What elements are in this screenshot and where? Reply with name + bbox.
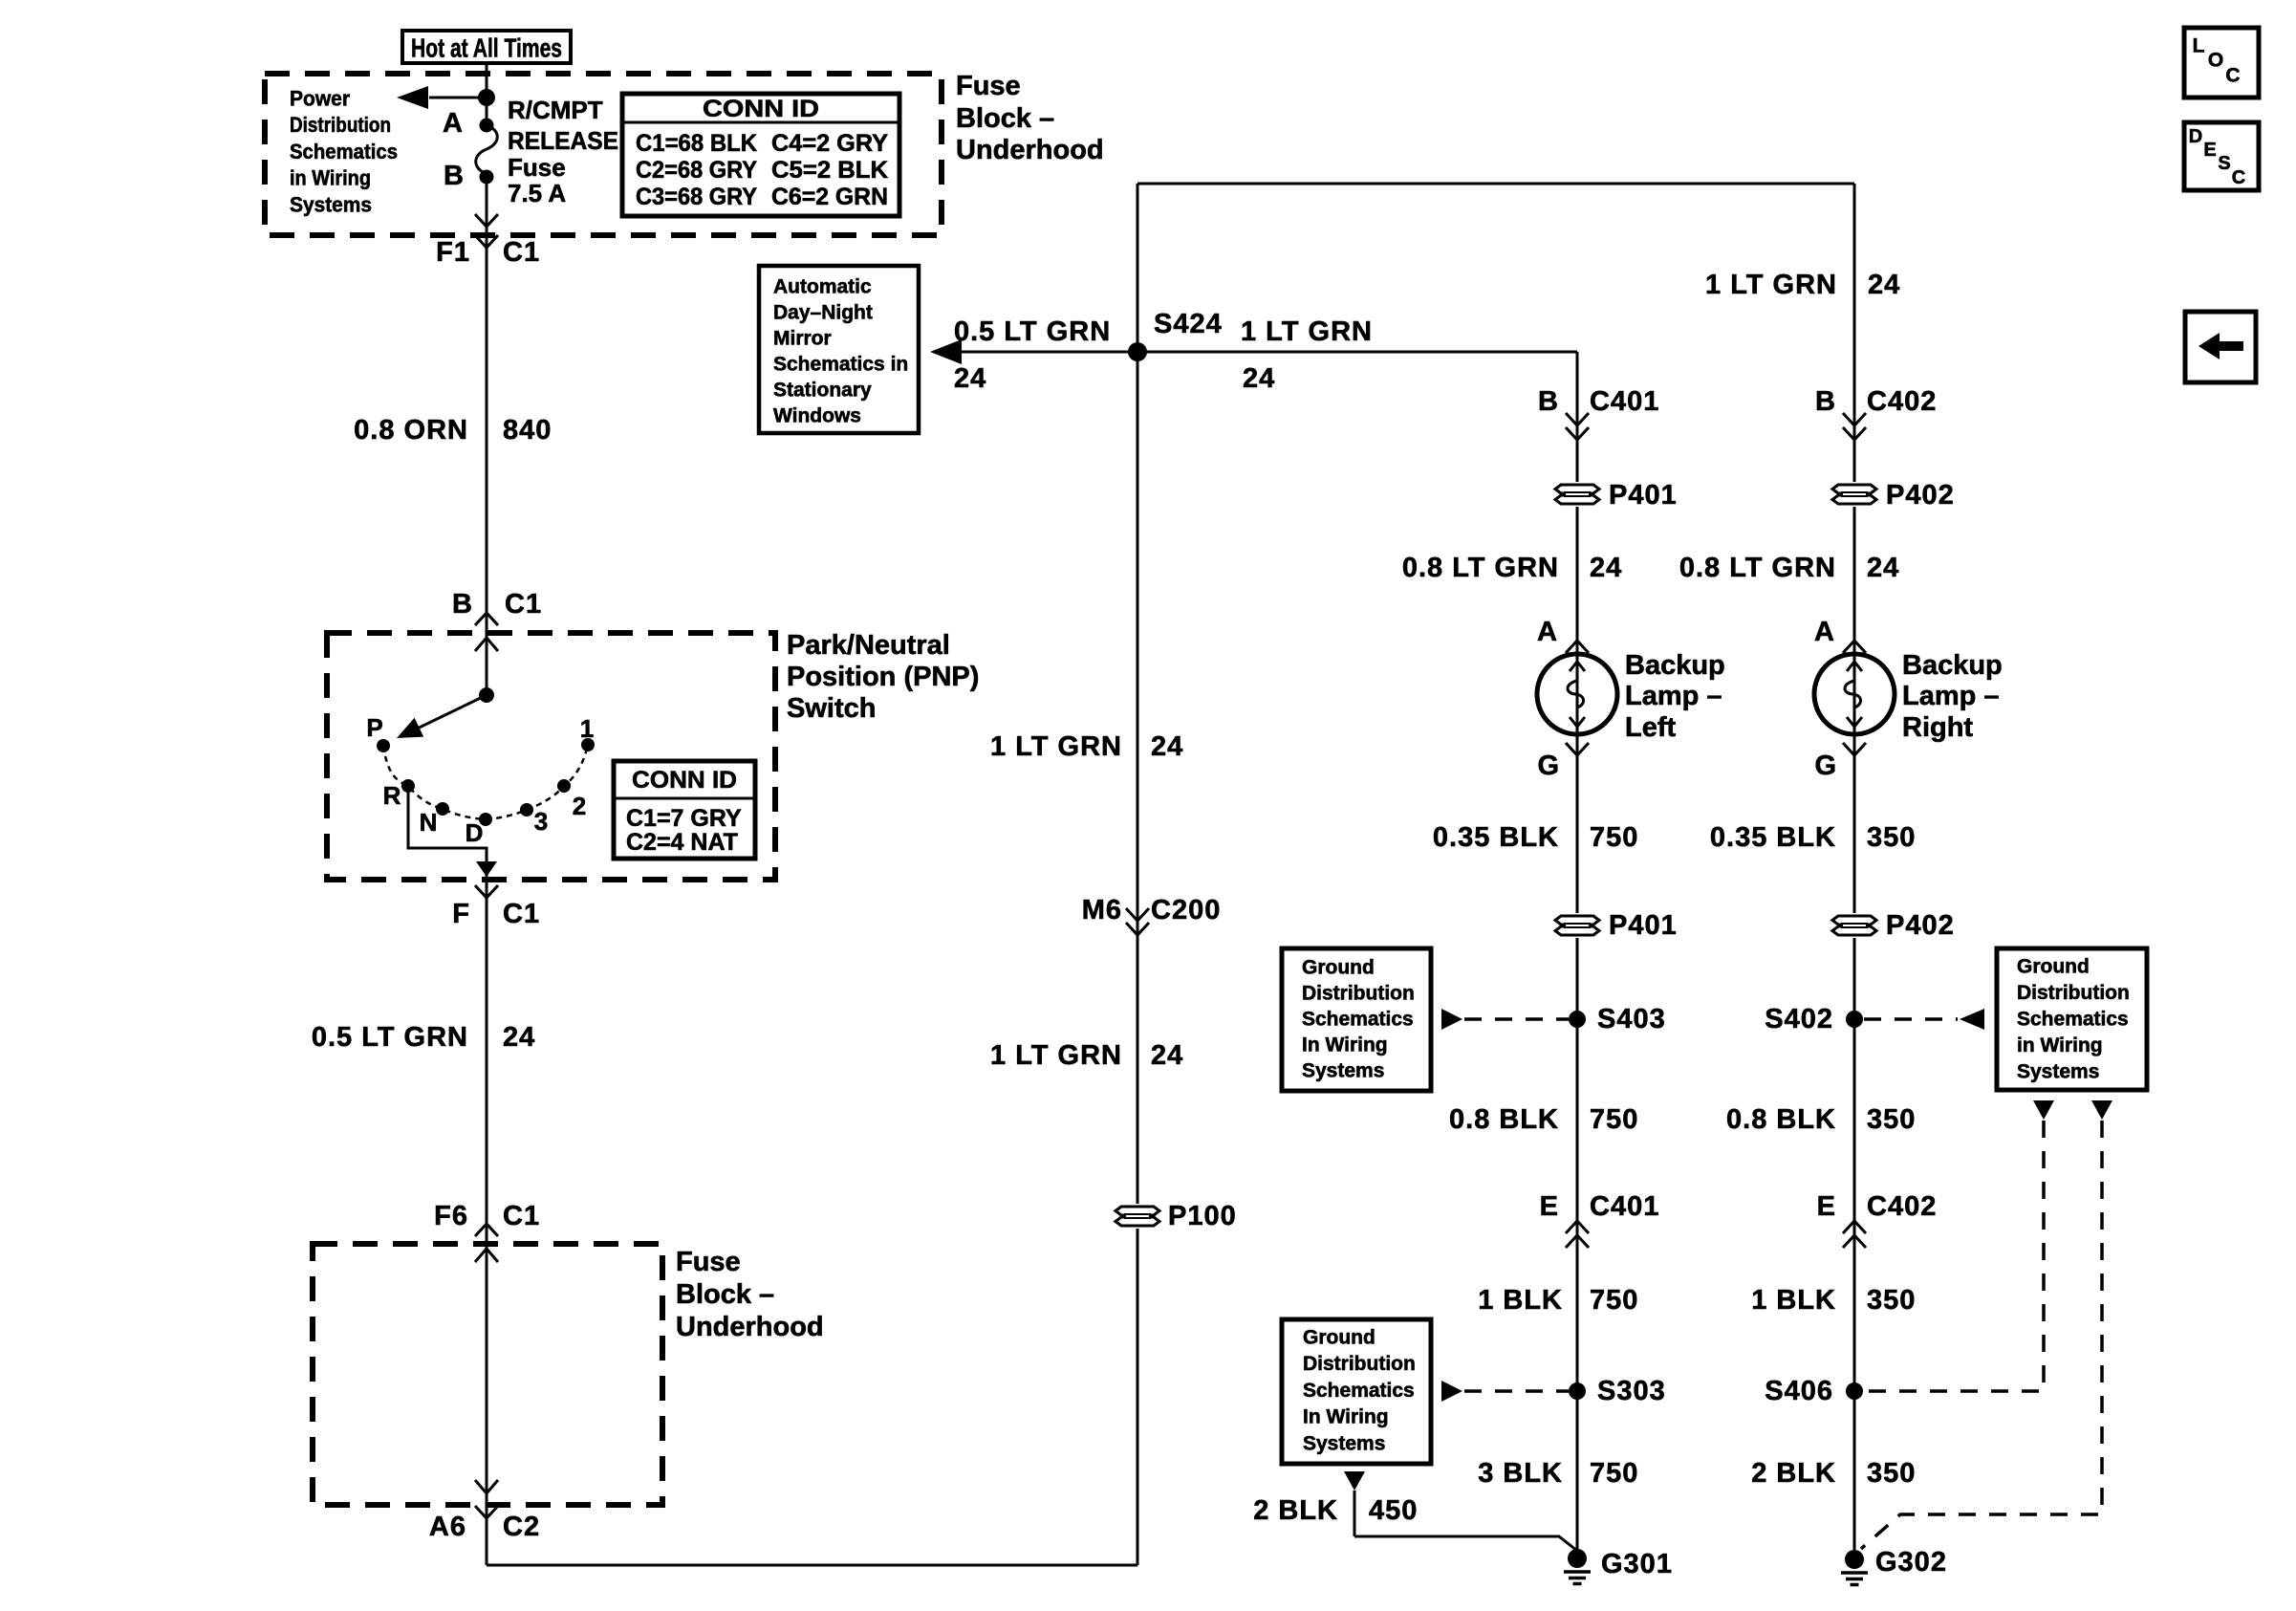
svg-text:24: 24: [954, 363, 986, 394]
svg-text:S: S: [2218, 153, 2230, 174]
svg-text:1 LT GRN: 1 LT GRN: [1705, 270, 1837, 300]
svg-text:Distribution: Distribution: [1303, 1353, 1416, 1375]
svg-text:350: 350: [1867, 822, 1916, 853]
svg-text:B: B: [452, 589, 473, 620]
svg-text:S303: S303: [1597, 1376, 1666, 1406]
svg-text:D: D: [466, 818, 484, 847]
svg-text:1 LT GRN: 1 LT GRN: [1241, 316, 1373, 347]
svg-text:M6: M6: [1082, 895, 1122, 925]
svg-text:P402: P402: [1886, 910, 1955, 941]
svg-text:24: 24: [1868, 270, 1900, 300]
svg-text:Fuse: Fuse: [956, 71, 1021, 101]
svg-text:Ground: Ground: [1303, 1327, 1375, 1349]
svg-text:0.35 BLK: 0.35 BLK: [1433, 822, 1559, 853]
svg-text:Fuse: Fuse: [508, 153, 566, 182]
svg-text:0.8 BLK: 0.8 BLK: [1726, 1104, 1836, 1135]
svg-text:In Wiring: In Wiring: [1302, 1034, 1388, 1056]
svg-text:Fuse: Fuse: [676, 1247, 741, 1277]
svg-text:C6=2 GRN: C6=2 GRN: [771, 184, 888, 210]
svg-text:B: B: [444, 161, 465, 191]
svg-text:350: 350: [1867, 1285, 1916, 1316]
svg-text:C401: C401: [1590, 1191, 1659, 1222]
svg-text:Block –: Block –: [956, 103, 1054, 134]
svg-text:C: C: [2232, 167, 2245, 188]
svg-text:L: L: [2193, 35, 2205, 57]
svg-text:Ground: Ground: [1302, 957, 1375, 979]
svg-text:G: G: [1814, 751, 1837, 781]
svg-text:B: B: [1815, 386, 1836, 417]
svg-text:F: F: [452, 899, 470, 929]
svg-text:Distribution: Distribution: [1302, 983, 1415, 1005]
svg-text:G: G: [1537, 751, 1560, 781]
svg-text:24: 24: [1151, 731, 1183, 762]
svg-text:2: 2: [573, 792, 586, 820]
svg-text:C200: C200: [1151, 895, 1221, 925]
svg-text:350: 350: [1867, 1458, 1916, 1489]
svg-text:C1: C1: [503, 899, 540, 929]
svg-text:CONN ID: CONN ID: [632, 767, 737, 794]
svg-text:2 BLK: 2 BLK: [1253, 1495, 1338, 1526]
svg-text:R/CMPT: R/CMPT: [508, 96, 603, 124]
svg-text:750: 750: [1590, 822, 1638, 853]
svg-text:RELEASE: RELEASE: [508, 126, 618, 155]
svg-text:7.5 A: 7.5 A: [508, 179, 566, 207]
svg-text:Distribution: Distribution: [290, 113, 391, 137]
svg-text:3 BLK: 3 BLK: [1478, 1458, 1563, 1489]
svg-text:P: P: [366, 713, 382, 742]
svg-text:O: O: [2208, 50, 2223, 72]
svg-text:C2=4 NAT: C2=4 NAT: [626, 829, 738, 856]
svg-text:In Wiring: In Wiring: [1303, 1406, 1389, 1428]
svg-text:840: 840: [503, 415, 552, 446]
svg-text:C4=2 GRY: C4=2 GRY: [771, 130, 888, 157]
svg-text:A: A: [1537, 617, 1558, 647]
svg-text:in Wiring: in Wiring: [2017, 1034, 2103, 1056]
svg-text:0.8 BLK: 0.8 BLK: [1449, 1104, 1559, 1135]
svg-text:1 BLK: 1 BLK: [1478, 1285, 1563, 1316]
svg-text:F1: F1: [436, 237, 470, 268]
svg-text:C: C: [2225, 65, 2240, 87]
svg-text:G301: G301: [1601, 1549, 1673, 1579]
svg-text:C1: C1: [503, 1201, 540, 1231]
svg-text:A: A: [1814, 617, 1835, 647]
svg-text:1 LT GRN: 1 LT GRN: [990, 731, 1122, 762]
svg-text:E: E: [2203, 140, 2216, 161]
svg-text:C1=7 GRY: C1=7 GRY: [626, 805, 742, 832]
svg-text:R: R: [383, 781, 401, 810]
svg-text:Right: Right: [1902, 712, 1973, 743]
svg-text:Block –: Block –: [676, 1279, 774, 1310]
svg-text:N: N: [420, 808, 438, 837]
svg-text:C402: C402: [1867, 1191, 1937, 1222]
svg-text:C401: C401: [1590, 386, 1659, 417]
svg-text:3: 3: [534, 807, 548, 836]
svg-text:P401: P401: [1609, 910, 1678, 941]
svg-text:2 BLK: 2 BLK: [1751, 1458, 1836, 1489]
svg-text:Park/Neutral: Park/Neutral: [787, 630, 950, 661]
svg-text:24: 24: [1590, 553, 1622, 583]
svg-text:C3=68 GRY: C3=68 GRY: [636, 184, 757, 210]
svg-text:in Wiring: in Wiring: [290, 166, 371, 190]
svg-text:Ground: Ground: [2017, 956, 2090, 978]
svg-text:Mirror: Mirror: [773, 328, 832, 350]
svg-text:Underhood: Underhood: [956, 135, 1104, 165]
svg-text:Backup: Backup: [1902, 650, 2003, 681]
svg-text:0.35 BLK: 0.35 BLK: [1710, 822, 1836, 853]
svg-text:Distribution: Distribution: [2017, 982, 2130, 1004]
svg-text:Systems: Systems: [1302, 1060, 1384, 1082]
svg-text:E: E: [1817, 1191, 1836, 1222]
svg-text:Schematics: Schematics: [1303, 1380, 1415, 1402]
svg-text:D: D: [2189, 126, 2202, 147]
svg-text:24: 24: [1867, 553, 1899, 583]
svg-text:0.8 LT GRN: 0.8 LT GRN: [1679, 553, 1836, 583]
svg-text:Lamp –: Lamp –: [1902, 681, 2000, 711]
svg-text:Schematics: Schematics: [2017, 1009, 2129, 1031]
svg-text:F6: F6: [434, 1201, 468, 1231]
svg-text:Systems: Systems: [1303, 1432, 1385, 1454]
svg-text:C2=68 GRY: C2=68 GRY: [636, 157, 757, 184]
svg-text:Stationary: Stationary: [773, 380, 872, 402]
svg-text:B: B: [1538, 386, 1559, 417]
svg-text:0.5 LT GRN: 0.5 LT GRN: [312, 1022, 468, 1053]
svg-text:Hot at All Times: Hot at All Times: [411, 33, 562, 63]
svg-text:0.8 LT GRN: 0.8 LT GRN: [1402, 553, 1559, 583]
svg-text:P100: P100: [1168, 1201, 1237, 1231]
svg-text:S402: S402: [1765, 1004, 1833, 1034]
svg-text:Schematics: Schematics: [1302, 1009, 1414, 1031]
svg-text:CONN ID: CONN ID: [703, 96, 819, 122]
svg-text:A: A: [443, 108, 464, 139]
svg-text:E: E: [1540, 1191, 1559, 1222]
svg-text:P401: P401: [1609, 480, 1678, 511]
svg-text:750: 750: [1590, 1458, 1638, 1489]
svg-text:0.5 LT GRN: 0.5 LT GRN: [954, 316, 1111, 347]
svg-text:C1: C1: [503, 237, 540, 268]
svg-text:350: 350: [1867, 1104, 1916, 1135]
svg-text:Windows: Windows: [773, 405, 861, 427]
svg-text:P402: P402: [1886, 480, 1955, 511]
svg-text:Position (PNP): Position (PNP): [787, 662, 979, 692]
svg-text:C5=2 BLK: C5=2 BLK: [771, 157, 888, 184]
svg-text:Schematics in: Schematics in: [773, 354, 908, 376]
svg-text:1 LT GRN: 1 LT GRN: [990, 1040, 1122, 1071]
svg-text:1 BLK: 1 BLK: [1751, 1285, 1836, 1316]
svg-text:Underhood: Underhood: [676, 1312, 824, 1342]
svg-text:Automatic: Automatic: [773, 276, 872, 298]
svg-text:A6: A6: [429, 1512, 466, 1542]
svg-text:Switch: Switch: [787, 693, 876, 724]
svg-text:Day–Night: Day–Night: [773, 302, 873, 324]
svg-text:Schematics: Schematics: [290, 140, 398, 163]
svg-text:24: 24: [1243, 363, 1275, 394]
svg-text:Backup: Backup: [1625, 650, 1725, 681]
svg-text:0.8 ORN: 0.8 ORN: [354, 415, 468, 446]
svg-text:750: 750: [1590, 1285, 1638, 1316]
svg-text:S424: S424: [1154, 309, 1223, 339]
svg-text:Left: Left: [1625, 712, 1677, 743]
svg-text:S406: S406: [1765, 1376, 1833, 1406]
svg-text:Power: Power: [290, 87, 350, 111]
svg-text:C402: C402: [1867, 386, 1937, 417]
svg-text:750: 750: [1590, 1104, 1638, 1135]
svg-text:C1=68 BLK: C1=68 BLK: [636, 130, 757, 157]
svg-text:C2: C2: [503, 1512, 540, 1542]
svg-text:450: 450: [1369, 1495, 1418, 1526]
svg-text:Systems: Systems: [290, 192, 372, 216]
svg-text:24: 24: [1151, 1040, 1183, 1071]
svg-text:G302: G302: [1875, 1547, 1947, 1578]
svg-text:S403: S403: [1597, 1004, 1666, 1034]
svg-text:1: 1: [580, 714, 594, 743]
svg-text:C1: C1: [505, 589, 542, 620]
svg-text:Lamp –: Lamp –: [1625, 681, 1722, 711]
svg-text:Systems: Systems: [2017, 1061, 2099, 1083]
svg-text:24: 24: [503, 1022, 535, 1053]
